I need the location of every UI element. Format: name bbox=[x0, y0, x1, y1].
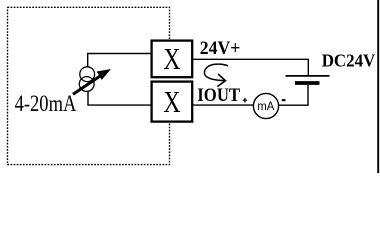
right page border line bbox=[377, 0, 379, 173]
minus polarity mark bbox=[282, 99, 286, 101]
svg-text:DC24V: DC24V bbox=[322, 51, 376, 71]
arrow through current source (adjustable) bbox=[73, 70, 110, 95]
battery DC24V long plate bbox=[286, 75, 330, 77]
dashed enclosure box bbox=[8, 7, 170, 164]
svg-text:mA: mA bbox=[257, 99, 274, 113]
subscript plus after IOUT bbox=[243, 98, 247, 103]
wire: IOUT terminal to ammeter bbox=[193, 104, 254, 106]
battery short plate bbox=[295, 81, 320, 85]
current source circle upper bbox=[80, 67, 95, 82]
svg-text:X: X bbox=[163, 41, 180, 76]
wire: top loop 4-20mA source to terminal X1 bbox=[88, 54, 151, 68]
wire: 24V+ to battery top bbox=[193, 59, 308, 75]
wire: battery bottom down and left to ammeter bbox=[279, 85, 308, 105]
terminal box X lower bbox=[152, 82, 193, 122]
svg-text:24V+: 24V+ bbox=[200, 39, 241, 59]
curved arrow (loop direction) bbox=[204, 64, 228, 86]
svg-text:4-20mA: 4-20mA bbox=[15, 91, 77, 116]
terminal box X upper bbox=[152, 41, 193, 78]
svg-text:IOUT: IOUT bbox=[197, 86, 240, 106]
current source circle lower bbox=[79, 77, 94, 92]
svg-text:X: X bbox=[163, 84, 180, 119]
ammeter mA bbox=[253, 93, 278, 118]
wire: bottom loop source to terminal X2 bbox=[88, 91, 151, 105]
